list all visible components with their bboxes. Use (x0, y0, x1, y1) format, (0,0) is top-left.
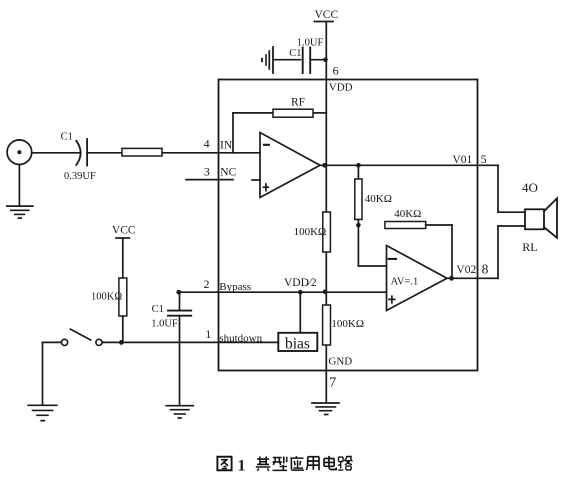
svg-text:IN: IN (220, 140, 233, 152)
svg-text:6: 6 (333, 64, 339, 78)
svg-text:4: 4 (204, 137, 210, 151)
svg-text:VCC: VCC (112, 224, 136, 236)
svg-text:1.0UF: 1.0UF (151, 319, 178, 330)
svg-text:1.0UF: 1.0UF (297, 38, 324, 49)
svg-text:3: 3 (204, 164, 210, 178)
svg-text:40KΩ: 40KΩ (394, 208, 421, 220)
svg-text:8: 8 (482, 261, 489, 276)
svg-text:VCC: VCC (315, 9, 339, 21)
svg-text:RL: RL (522, 240, 537, 254)
svg-text:4O: 4O (522, 180, 538, 195)
svg-text:Bypass: Bypass (219, 281, 251, 293)
svg-text:1: 1 (238, 458, 246, 475)
svg-text:NC: NC (220, 166, 236, 178)
svg-text:100KΩ: 100KΩ (91, 291, 122, 302)
svg-text:100KΩ: 100KΩ (331, 318, 364, 330)
svg-text:RF: RF (291, 96, 305, 108)
svg-text:100KΩ: 100KΩ (294, 226, 327, 238)
svg-text:VDD: VDD (329, 82, 353, 94)
svg-text:shutdown: shutdown (219, 333, 262, 345)
svg-text:AV=.1: AV=.1 (391, 276, 419, 287)
svg-text:7: 7 (329, 376, 336, 391)
svg-text:C1: C1 (289, 48, 301, 59)
svg-text:5: 5 (481, 152, 487, 166)
svg-text:0.39UF: 0.39UF (64, 171, 96, 182)
svg-text:V01: V01 (452, 154, 472, 166)
svg-text:C1: C1 (61, 131, 73, 142)
svg-text:V02: V02 (456, 264, 476, 276)
svg-text:40KΩ: 40KΩ (365, 193, 392, 205)
svg-text:VDD∕2: VDD∕2 (284, 277, 317, 289)
svg-text:2: 2 (204, 277, 210, 291)
svg-text:bias: bias (285, 335, 310, 352)
svg-text:C1: C1 (152, 304, 164, 315)
svg-text:1: 1 (205, 327, 211, 341)
svg-text:GND: GND (328, 355, 352, 367)
